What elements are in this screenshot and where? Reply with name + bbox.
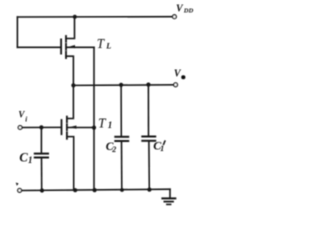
transistor T_L source lead: [66, 56, 73, 85]
transistor T1 drain lead: [67, 85, 74, 118]
wire VDD rail: [17, 16, 172, 18]
stray mark near bottom-left terminal: [16, 183, 19, 186]
svg-text:1: 1: [108, 120, 113, 130]
capacitor C1' top lead: [147, 85, 149, 136]
node junction dot T1 bulk: [92, 126, 96, 130]
transistor T_L channel segments: [65, 36, 67, 42]
capacitor C1 top lead: [40, 127, 42, 152]
node junction dot output/C1': [146, 83, 150, 87]
node junction dot output/T column: [71, 83, 75, 87]
wire output rail: [73, 84, 173, 87]
capacitor C2 bottom lead: [121, 142, 123, 190]
wire left loop vertical (gate of T_L to VDD): [16, 17, 18, 47]
transistor T1 source lead: [67, 137, 74, 191]
transistor T_L bulk arrow: [69, 45, 75, 48]
terminal Vi circle: [18, 126, 22, 130]
node junction dot ground/T1 source: [73, 188, 77, 192]
transistor T1 bulk arrow: [69, 126, 76, 129]
svg-text:DD: DD: [183, 7, 194, 14]
svg-text:T: T: [98, 115, 107, 130]
node junction dot ground/C2: [120, 188, 124, 192]
svg-text:V: V: [174, 69, 182, 80]
capacitor C1' bottom lead: [148, 142, 150, 190]
terminal VDD circle: [173, 15, 177, 19]
node junction dot on VDD rail (T_L drain): [73, 15, 77, 19]
transistor T_L gate bar: [60, 39, 62, 53]
wire bulk column (substrates to ground): [93, 47, 95, 190]
capacitor C2 plates: [115, 136, 128, 138]
transistor T1 gate bar: [61, 120, 63, 134]
ground symbol: [169, 189, 171, 198]
wire T_L gate lead: [17, 46, 60, 48]
node junction dot ground/C1': [147, 188, 151, 192]
capacitor C1' plates: [142, 136, 155, 138]
transistor T_L drain lead: [66, 17, 75, 39]
node junction dot output/C2: [119, 83, 123, 87]
svg-text:1: 1: [28, 155, 33, 165]
capacitor C2 top lead: [120, 85, 122, 136]
terminal ground-side circle (bottom left): [18, 189, 22, 193]
capacitor C1 plates: [35, 153, 48, 155]
node junction dot ground/C1: [40, 188, 44, 192]
transistor T1 channel segments: [66, 117, 68, 123]
wire input lead: [22, 126, 61, 128]
node junction dot ground/bulk column: [93, 188, 97, 192]
terminal Vo circle: [174, 83, 178, 87]
svg-text:L: L: [105, 42, 111, 51]
wire ground rail: [22, 189, 170, 190]
svg-text:2: 2: [111, 145, 116, 154]
capacitor C1 bottom lead: [41, 159, 43, 191]
svg-text:1: 1: [160, 144, 164, 153]
svg-text:i: i: [25, 115, 27, 123]
svg-text:V: V: [176, 4, 184, 15]
node junction dot input/C1: [39, 125, 43, 129]
svg-text:T: T: [97, 36, 106, 51]
